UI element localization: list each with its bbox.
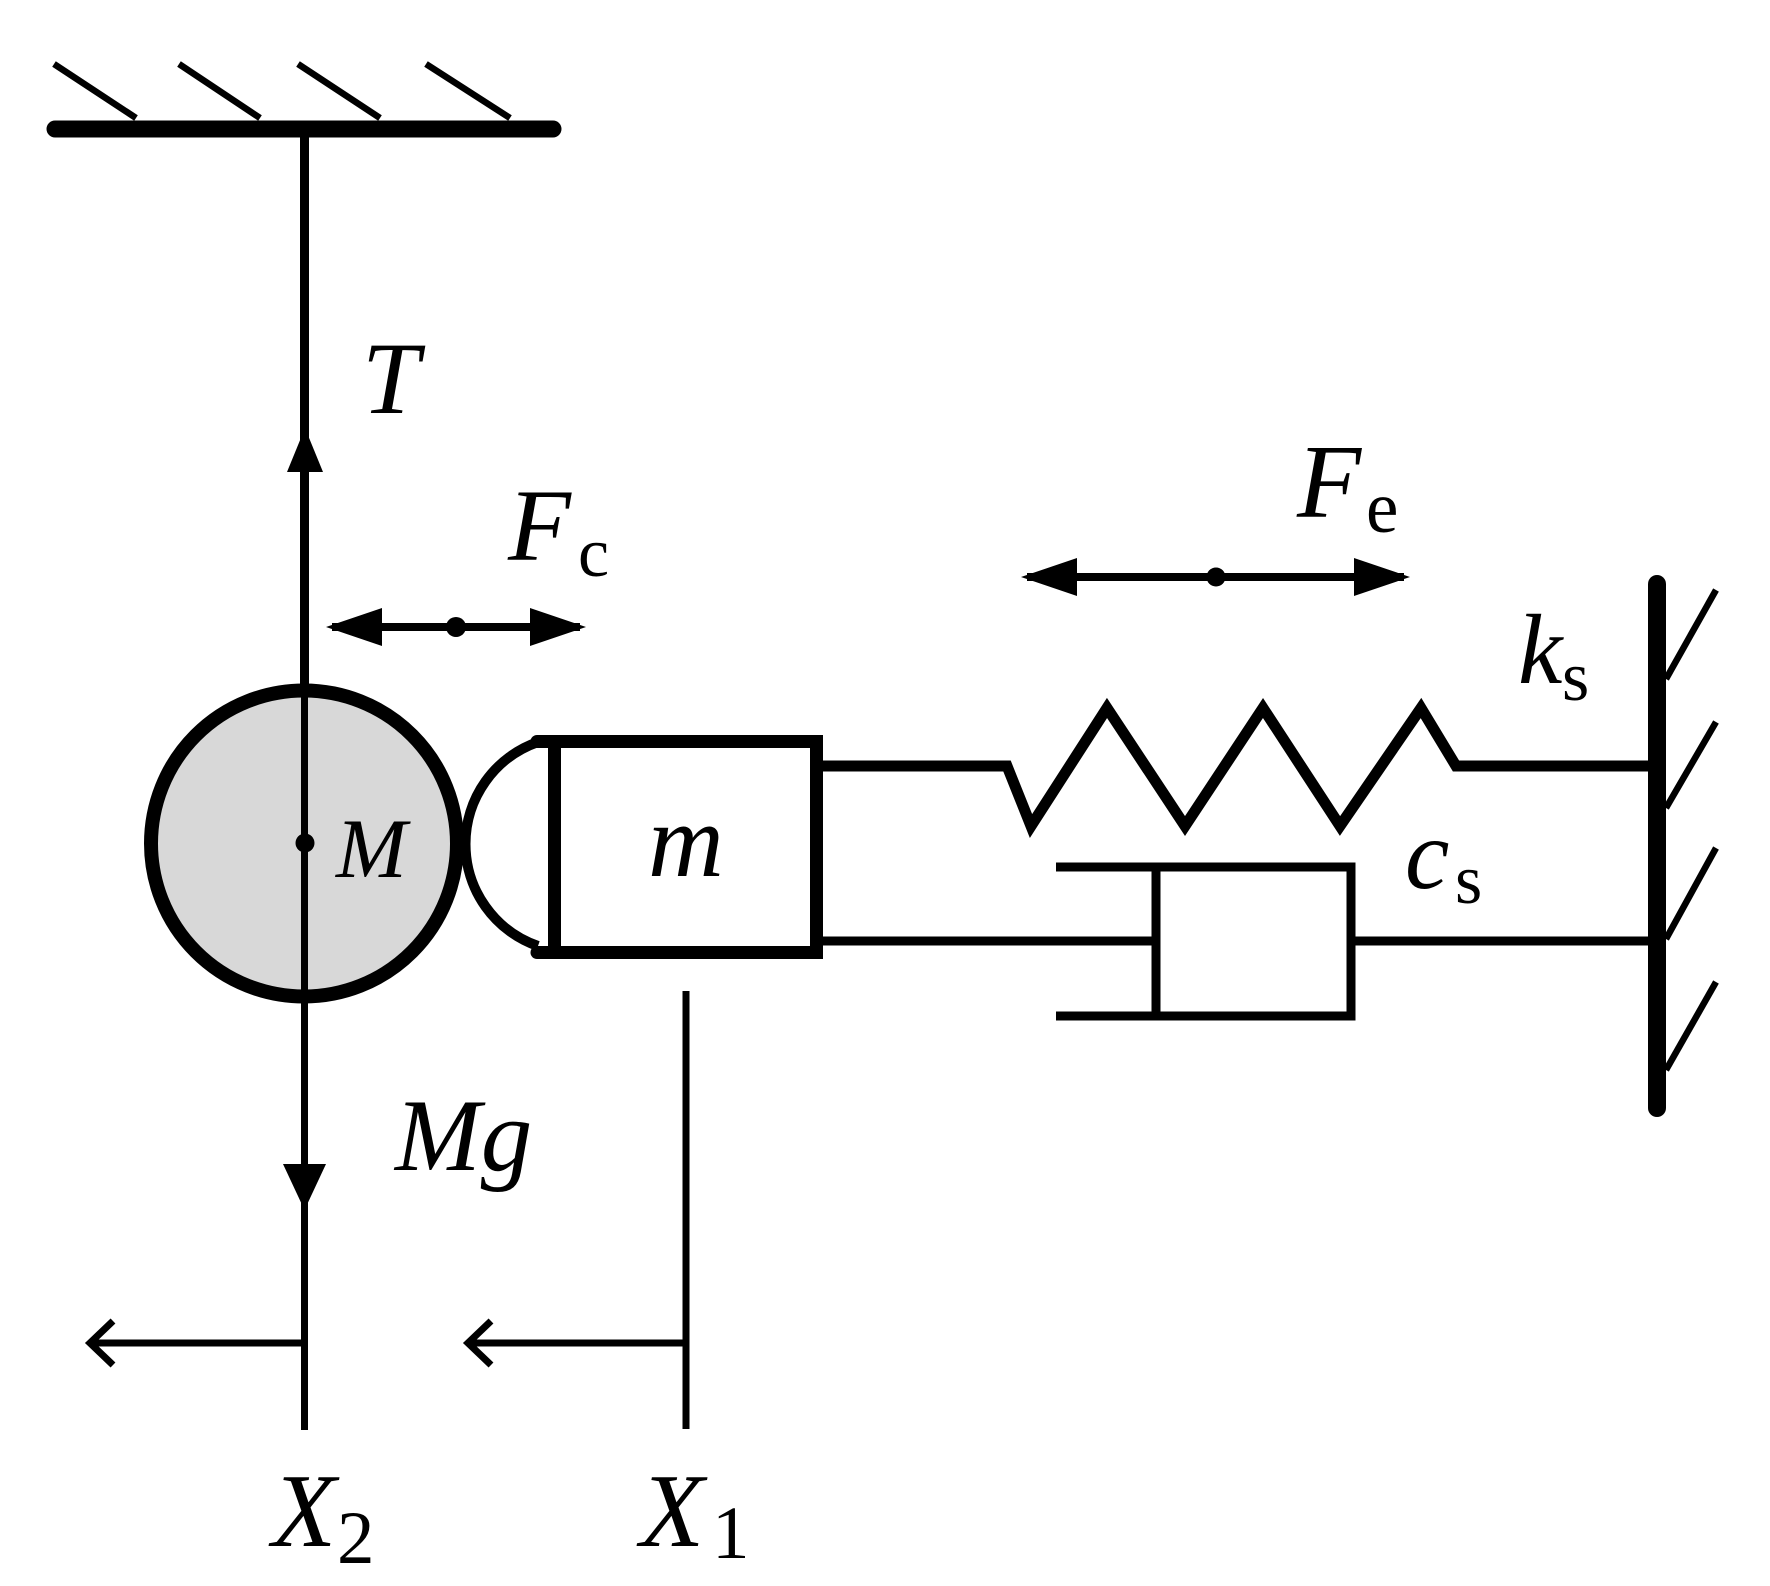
ceiling bar — [55, 121, 553, 138]
contact cap arc on mass m — [465, 742, 538, 946]
svg-text:X: X — [268, 1452, 340, 1569]
svg-text:X: X — [636, 1452, 708, 1569]
spring ks — [823, 708, 1657, 826]
mass m block corner stub bottom — [537, 946, 556, 959]
svg-text:k: k — [1518, 594, 1564, 705]
svg-text:c: c — [1405, 799, 1449, 910]
tension arrowhead T — [287, 428, 323, 472]
X1 axis arrowhead — [468, 1321, 491, 1365]
X1 reference line — [683, 991, 690, 1429]
X1 coordinate axis — [468, 1340, 686, 1347]
force arrow Fe — [1027, 573, 1404, 581]
mass m block corner stub top — [537, 735, 556, 748]
pivot dot in circle — [296, 834, 315, 853]
force arrow Fc — [332, 623, 580, 631]
damper cylinder top wall — [1056, 863, 1351, 872]
right wall — [1648, 584, 1666, 1108]
X2 axis arrowhead — [90, 1321, 113, 1365]
damper cylinder bottom wall — [1056, 1012, 1351, 1021]
mass m block — [555, 742, 817, 953]
svg-text:Mg: Mg — [393, 1079, 532, 1193]
damper cylinder right closure — [1347, 863, 1356, 1021]
svg-text:F: F — [507, 469, 572, 583]
wall hatch marks — [1666, 590, 1716, 1070]
ceiling hatch marks — [54, 64, 510, 118]
svg-text:m: m — [648, 782, 724, 899]
gravity arrowhead Mg — [283, 1164, 326, 1210]
wire: pendulum rope lower segment — [301, 695, 308, 1430]
svg-text:c: c — [578, 515, 609, 592]
X2 coordinate axis — [90, 1340, 304, 1347]
svg-text:2: 2 — [337, 1497, 375, 1580]
svg-text:T: T — [362, 322, 426, 436]
svg-text:1: 1 — [712, 1492, 750, 1575]
damper rod right — [1351, 937, 1657, 946]
svg-text:e: e — [1366, 467, 1398, 548]
svg-text:s: s — [1562, 639, 1589, 716]
wire: pendulum rope upper segment — [300, 129, 309, 695]
svg-text:s: s — [1455, 842, 1482, 919]
damper cs: piston rod left — [823, 937, 1156, 946]
svg-text:F: F — [1296, 423, 1363, 540]
svg-text:M: M — [335, 802, 411, 896]
damper piston plate — [1152, 863, 1161, 1020]
mass M circle — [151, 691, 457, 997]
